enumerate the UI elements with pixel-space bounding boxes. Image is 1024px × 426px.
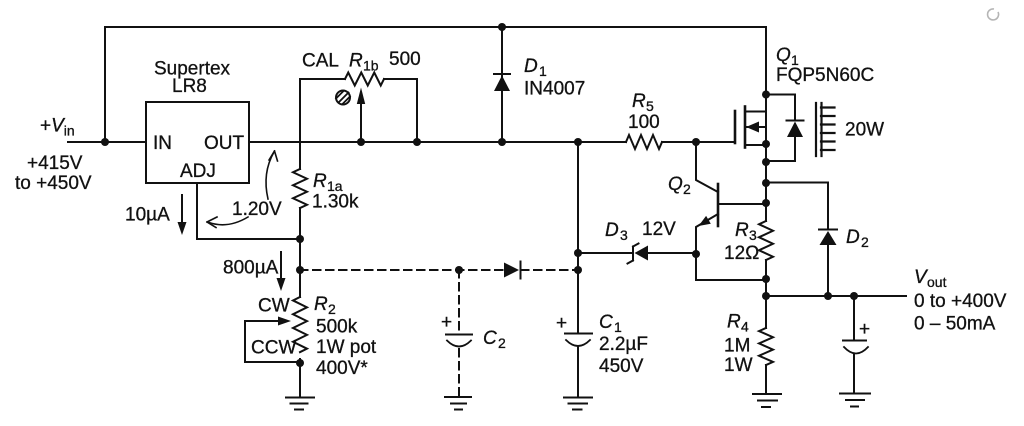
svg-text:+415V: +415V [27,153,83,174]
svg-text:Q: Q [668,174,683,195]
svg-text:R: R [735,220,749,241]
svg-text:3: 3 [620,227,628,243]
svg-text:C: C [599,312,613,333]
svg-text:ADJ: ADJ [180,161,216,182]
svg-text:10µA: 10µA [125,205,170,226]
svg-text:R: R [314,294,328,315]
svg-text:CAL: CAL [302,51,339,72]
svg-text:4: 4 [741,319,749,335]
svg-text:2: 2 [498,335,506,351]
svg-text:500k: 500k [316,317,358,338]
svg-text:100: 100 [628,112,660,133]
svg-text:CW: CW [258,296,290,317]
svg-text:0 – 50mA: 0 – 50mA [914,314,996,335]
svg-text:LR8: LR8 [172,76,207,97]
svg-text:C: C [483,328,497,349]
svg-text:D: D [605,220,619,241]
svg-text:400V*: 400V* [316,358,368,379]
svg-text:IN: IN [153,133,172,154]
svg-text:OUT: OUT [204,133,245,154]
svg-text:2: 2 [328,301,336,317]
svg-text:12V: 12V [642,219,676,240]
svg-text:1: 1 [614,319,622,335]
svg-text:D: D [846,227,860,248]
svg-text:+: + [441,312,452,333]
svg-text:R: R [632,91,646,112]
svg-text:800µA: 800µA [223,258,279,279]
svg-text:1.20V: 1.20V [232,199,282,220]
svg-text:450V: 450V [599,356,644,377]
svg-text:IN4007: IN4007 [524,79,585,100]
svg-text:R: R [349,51,363,72]
svg-text:2: 2 [683,181,691,197]
svg-text:1W: 1W [724,355,753,376]
svg-text:to +450V: to +450V [15,173,92,194]
svg-text:1: 1 [539,63,547,79]
svg-text:Q: Q [776,45,791,66]
svg-text:out: out [927,274,947,290]
svg-text:1.30k: 1.30k [312,192,359,213]
svg-text:FQP5N60C: FQP5N60C [776,65,874,86]
svg-text:20W: 20W [845,120,884,141]
svg-text:0 to +400V: 0 to +400V [914,291,1007,312]
svg-text:12Ω: 12Ω [724,243,759,264]
svg-text:+Vin: +Vin [40,116,75,139]
svg-text:1M: 1M [724,336,750,357]
svg-text:500: 500 [389,49,421,70]
svg-text:+: + [556,313,567,334]
svg-text:+: + [859,319,870,340]
svg-text:CCW: CCW [251,338,296,359]
svg-text:D: D [524,56,538,77]
svg-text:2.2µF: 2.2µF [599,334,648,355]
svg-text:R: R [313,171,327,192]
svg-text:3: 3 [749,227,757,243]
svg-text:1b: 1b [363,58,379,74]
svg-text:2: 2 [861,234,869,250]
svg-text:1W pot: 1W pot [316,337,377,358]
svg-text:R: R [727,312,741,333]
